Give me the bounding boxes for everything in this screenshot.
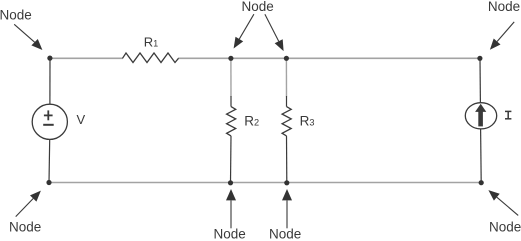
svg-text:Node: Node xyxy=(242,0,274,14)
arrow to top-middle-right node xyxy=(265,14,284,51)
svg-text:Node: Node xyxy=(269,226,301,241)
wire R3 top lead (grey) xyxy=(285,58,287,96)
node junction bottom-left xyxy=(46,180,51,185)
node junction top-middle-right xyxy=(284,56,289,61)
voltage source V xyxy=(32,58,67,182)
svg-text:Node: Node xyxy=(214,226,246,241)
node junction bottom-middle-right xyxy=(284,180,289,185)
arrow to bottom-left node xyxy=(16,191,41,217)
svg-text:V: V xyxy=(77,112,86,127)
svg-text:Node: Node xyxy=(489,219,521,234)
node label top-left xyxy=(0,7,32,22)
arrow to bottom-middle-right node xyxy=(282,189,292,228)
node label bottom-left xyxy=(9,219,41,234)
label I xyxy=(505,111,511,118)
node label bottom-right xyxy=(489,219,521,234)
svg-text:R2: R2 xyxy=(244,114,259,129)
node junction top-middle-left xyxy=(228,56,233,61)
node junction bottom-middle-left xyxy=(228,180,233,185)
svg-text:Node: Node xyxy=(0,7,32,22)
arrow to top-middle-left node xyxy=(234,14,254,48)
wire top rail left segment xyxy=(50,57,123,59)
svg-text:R3: R3 xyxy=(300,114,315,129)
node label bottom-middle-right xyxy=(269,226,301,241)
current source I xyxy=(465,58,496,182)
arrow to top-left node xyxy=(14,24,42,50)
node label top-right xyxy=(488,0,520,14)
svg-text:Node: Node xyxy=(9,219,41,234)
node label bottom-middle-left xyxy=(214,226,246,241)
wire bottom rail xyxy=(49,182,481,184)
arrow to bottom-middle-left node xyxy=(226,189,236,228)
arrow to top-right node xyxy=(490,22,514,50)
wire R2 top lead (grey) xyxy=(230,58,232,96)
svg-text:Node: Node xyxy=(488,0,520,14)
node label top-middle xyxy=(242,0,274,14)
svg-text:R1: R1 xyxy=(144,35,158,50)
label R2 xyxy=(244,114,259,129)
wire top rail right segment xyxy=(178,57,480,59)
resistor R1 xyxy=(123,53,179,63)
node junction top-right xyxy=(477,56,482,61)
label R3 xyxy=(300,114,315,129)
arrow to bottom-right node xyxy=(488,190,518,215)
node junction bottom-right xyxy=(479,180,484,185)
resistor R2 xyxy=(227,96,236,183)
label V xyxy=(77,112,86,127)
node junction top-left xyxy=(47,56,52,61)
label R1 xyxy=(144,35,158,50)
resistor R3 xyxy=(282,96,291,183)
